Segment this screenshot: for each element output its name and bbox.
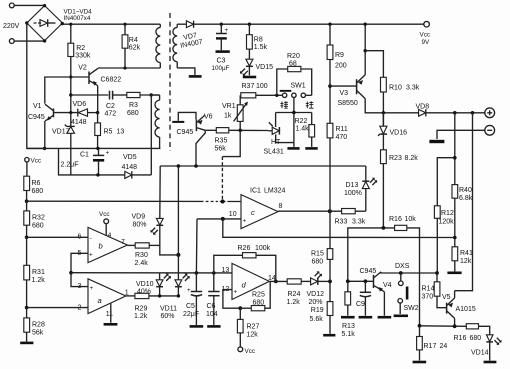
node R41 top <box>453 236 457 240</box>
node VD11 column top <box>177 164 181 168</box>
label nickel <box>280 101 288 108</box>
svg-text:VD12: VD12 <box>307 291 325 298</box>
svg-text:1.5k: 1.5k <box>254 44 268 51</box>
svg-text:200: 200 <box>335 63 347 70</box>
ground C3 <box>216 50 230 53</box>
wire top rail right <box>221 23 423 25</box>
svg-text:IC1: IC1 <box>250 188 261 195</box>
svg-text:13: 13 <box>222 267 230 274</box>
resistor R4 <box>124 24 126 35</box>
ground SW1 middle <box>287 147 299 150</box>
svg-text:680: 680 <box>127 110 139 117</box>
svg-text:3: 3 <box>78 283 82 290</box>
terminal plus <box>485 108 495 118</box>
transistor V4 C945 <box>374 272 385 316</box>
wire opamp b pin6 <box>27 236 88 238</box>
resistor R25 680 <box>240 281 270 310</box>
resistor R40 6.8k <box>452 185 458 199</box>
resistor R14 370 <box>434 273 446 308</box>
svg-text:C945: C945 <box>360 268 377 275</box>
svg-text:12k: 12k <box>247 332 259 339</box>
LED VD9 <box>151 218 164 245</box>
resistor R2 <box>70 24 72 43</box>
transistor V3 S8550 <box>357 75 366 99</box>
wire V4 collector DXS row <box>381 272 437 273</box>
svg-text:+: + <box>89 252 93 259</box>
svg-text:R26: R26 <box>238 245 251 252</box>
svg-text:D13: D13 <box>346 182 359 189</box>
Vcc opamp b <box>104 219 109 224</box>
Vcc 9V terminal <box>424 21 430 27</box>
svg-text:A1015: A1015 <box>456 306 476 313</box>
node VD6 left / VD17 top <box>69 111 72 114</box>
node R32 bottom <box>25 236 29 240</box>
svg-text:680: 680 <box>253 299 265 306</box>
svg-text:2: 2 <box>78 304 82 311</box>
node R14 top <box>435 271 439 275</box>
svg-text:V3: V3 <box>340 90 349 97</box>
node R25/R27 <box>238 306 242 310</box>
svg-text:R10: R10 <box>389 85 402 92</box>
ground C9 <box>359 316 373 319</box>
node pin9 drop <box>221 217 225 221</box>
switch DXS SW2 <box>395 263 410 314</box>
node V1 emitter <box>43 147 46 150</box>
svg-text:7: 7 <box>121 239 125 246</box>
svg-text:V6: V6 <box>204 114 213 121</box>
svg-text:8: 8 <box>279 203 283 210</box>
svg-text:R8: R8 <box>254 37 263 44</box>
svg-text:4148: 4148 <box>71 119 87 126</box>
svg-text:6.8k: 6.8k <box>459 195 473 202</box>
svg-text:R4: R4 <box>129 37 138 44</box>
svg-text:+: + <box>243 218 247 225</box>
svg-text:+: + <box>187 287 191 294</box>
node opamp d output <box>274 280 278 284</box>
svg-text:R41: R41 <box>460 250 473 257</box>
svg-text:R16: R16 <box>454 335 467 342</box>
resistor R22 1.4k <box>309 113 315 147</box>
diode VD8 <box>419 109 485 116</box>
ground R28 <box>20 342 33 345</box>
svg-text:24: 24 <box>440 343 448 350</box>
capacitor C2 472 <box>110 91 127 100</box>
ground R41 <box>447 271 461 274</box>
wire horizontal y148 <box>27 147 161 149</box>
capacitor C6 104 <box>208 273 219 325</box>
wire top rail left <box>63 23 161 25</box>
wire V2 base <box>45 77 89 104</box>
svg-text:100μF: 100μF <box>212 65 230 72</box>
ground C6 <box>207 325 220 328</box>
label lithium <box>306 101 314 108</box>
wire plus column down <box>454 113 456 185</box>
node VD10 bottom <box>158 294 161 297</box>
node R13 top <box>346 279 350 283</box>
resistor R13 5.1k <box>345 281 351 315</box>
svg-text:472: 472 <box>105 111 117 118</box>
resistor R31 1.2k <box>26 237 28 265</box>
svg-text:2.2μF: 2.2μF <box>61 161 79 168</box>
svg-text:R16: R16 <box>389 216 402 223</box>
svg-text:R22: R22 <box>295 118 308 125</box>
svg-text:11: 11 <box>106 311 113 318</box>
svg-text:V4: V4 <box>383 282 392 289</box>
svg-text:V2: V2 <box>78 64 87 71</box>
resistor R8 1.5k <box>248 24 250 35</box>
svg-text:VD17: VD17 <box>52 129 70 136</box>
transistor V6 C945 base tap <box>172 112 196 123</box>
svg-text:-: - <box>90 235 92 242</box>
resistor R32 680 <box>24 211 30 225</box>
svg-text:R27: R27 <box>247 324 260 331</box>
svg-text:R29: R29 <box>135 306 148 313</box>
node VD12 right <box>328 280 332 284</box>
svg-text:+: + <box>106 150 110 157</box>
resistor R33 3.3k <box>342 209 356 214</box>
node R2 top <box>69 23 72 26</box>
wire V2 emitter column <box>97 86 99 113</box>
resistor R23 8.2k <box>381 150 387 164</box>
svg-text:4148: 4148 <box>122 164 138 171</box>
wire VD9 column <box>159 166 161 218</box>
node output c <box>328 209 332 213</box>
svg-text:S8550: S8550 <box>338 100 358 107</box>
svg-text:13: 13 <box>117 129 125 136</box>
node C9 top <box>364 279 368 283</box>
opamp d <box>232 263 269 299</box>
svg-text:C5: C5 <box>186 303 195 310</box>
svg-text:R37: R37 <box>242 83 255 90</box>
node R4 bottom <box>123 66 126 69</box>
svg-text:4: 4 <box>108 232 112 239</box>
resistor R12 120k <box>434 206 440 219</box>
wire R10 branch <box>365 51 383 78</box>
svg-text:SW1: SW1 <box>291 82 306 89</box>
resistor R41 12k <box>452 247 458 261</box>
resistor R35 56k <box>205 128 268 133</box>
node R17 top <box>418 324 422 328</box>
svg-text:R20: R20 <box>287 53 300 60</box>
transformer core dashed <box>169 13 171 151</box>
svg-text:60%: 60% <box>161 313 175 320</box>
resistor R17 24 <box>417 326 423 361</box>
resistor R15 680 <box>327 249 333 260</box>
wire minus to ground <box>437 130 485 139</box>
svg-text:R25: R25 <box>252 292 265 299</box>
wire V4 base row <box>348 280 373 282</box>
left column Vcc terminal <box>25 158 29 162</box>
node C1 top <box>96 147 99 150</box>
ground V4 <box>378 316 392 319</box>
node C2 wire left <box>69 93 72 96</box>
node DXS top <box>399 271 403 275</box>
svg-text:Vcc: Vcc <box>245 348 256 355</box>
variable resistor VR1 1k <box>234 95 248 130</box>
wire R17 row <box>420 325 467 328</box>
svg-text:LM324: LM324 <box>264 188 286 195</box>
svg-text:R30: R30 <box>135 252 148 259</box>
svg-text:5.6k: 5.6k <box>310 316 324 323</box>
svg-text:SW2: SW2 <box>404 305 419 312</box>
svg-text:R40: R40 <box>459 187 472 194</box>
svg-text:R9: R9 <box>335 52 344 59</box>
zener VD17 <box>65 113 75 175</box>
AC input terminal lower <box>9 39 14 44</box>
wire R12 branch <box>437 158 455 206</box>
svg-text:+: + <box>90 285 94 292</box>
wire V3 emitter column <box>364 24 366 75</box>
regulator HT SL431 <box>268 113 294 143</box>
resistor R9 200 <box>329 24 331 45</box>
capacitor C1 2.2uF <box>93 148 110 175</box>
wire pin9 to battery divider <box>223 219 455 238</box>
svg-text:R12: R12 <box>441 210 454 217</box>
svg-text:C1: C1 <box>80 152 89 159</box>
capacitor C3 100uF <box>216 24 229 50</box>
wire VD5 row <box>59 148 152 175</box>
diode VD7 IN4007 <box>186 21 221 28</box>
transistor V6 C945 <box>196 115 205 166</box>
ground VD14 <box>484 361 497 364</box>
wire pin11 ground <box>110 304 112 323</box>
svg-text:R24: R24 <box>288 291 301 298</box>
ground C5 <box>190 325 204 328</box>
opamp b <box>88 227 127 262</box>
wire V3 collector to VD8 row <box>365 99 418 113</box>
svg-text:56k: 56k <box>215 146 227 153</box>
svg-text:1.2k: 1.2k <box>287 299 301 306</box>
wire R2 column down <box>70 57 72 113</box>
svg-text:680: 680 <box>32 222 44 229</box>
svg-text:VD15: VD15 <box>256 64 274 71</box>
svg-text:C945: C945 <box>177 129 194 136</box>
AC input terminal upper <box>9 3 14 8</box>
svg-text:R31: R31 <box>32 269 45 276</box>
svg-text:R5: R5 <box>104 129 113 136</box>
svg-text:+: + <box>225 27 229 34</box>
wire secondary top to VD7 <box>177 23 186 25</box>
ground minus <box>429 140 444 143</box>
svg-text:68: 68 <box>289 60 297 67</box>
svg-text:R19: R19 <box>311 307 324 314</box>
opamp c <box>241 195 278 229</box>
node R23 bottom <box>382 226 386 230</box>
wire R11 column <box>329 138 331 249</box>
transistor V5 A1015 <box>447 291 455 327</box>
svg-text:330k: 330k <box>75 53 91 60</box>
svg-text:VD14: VD14 <box>471 350 489 357</box>
svg-text:DXS: DXS <box>395 263 410 270</box>
resistor R20 68 loop <box>277 66 312 95</box>
svg-text:470: 470 <box>336 134 348 141</box>
svg-text:22μF: 22μF <box>183 311 199 318</box>
wire R30 to VD11 column <box>160 245 179 255</box>
transformer secondary winding <box>173 24 177 68</box>
svg-text:R28: R28 <box>32 321 45 328</box>
wire secondary bottom to ground <box>177 68 195 75</box>
wire VD5 right up column <box>150 95 152 175</box>
resistor R27 12k <box>237 308 243 347</box>
wire opamp a pin2 <box>27 307 88 309</box>
wire AC left column down <box>27 23 45 148</box>
svg-text:370: 370 <box>422 294 434 301</box>
svg-text:1.4k: 1.4k <box>295 126 309 133</box>
node discharge column <box>471 111 475 115</box>
svg-text:b: b <box>99 242 103 251</box>
svg-text:120k: 120k <box>439 219 455 226</box>
svg-text:56k: 56k <box>32 329 44 336</box>
wire V1 emitter down <box>44 121 46 148</box>
wire pin5 loop <box>71 253 88 286</box>
svg-text:100%: 100% <box>344 190 362 197</box>
svg-text:5.1k: 5.1k <box>342 331 356 338</box>
node R31 bottom <box>25 306 29 310</box>
wire VD11 column <box>177 166 179 280</box>
svg-text:c: c <box>251 208 255 217</box>
ground R13 <box>341 316 355 319</box>
LED VD11 <box>175 274 190 296</box>
svg-text:R17: R17 <box>424 343 437 350</box>
ground R17 <box>413 361 427 364</box>
node C6 top <box>212 271 216 275</box>
LED D13 100% <box>362 166 377 211</box>
svg-text:100: 100 <box>256 83 268 90</box>
transistor V2 C6822 <box>89 68 98 85</box>
svg-text:a: a <box>98 296 102 305</box>
svg-text:C9: C9 <box>356 301 365 308</box>
wire V3 base <box>330 85 356 87</box>
node C5 top <box>195 271 199 275</box>
node C1 bottom <box>96 173 99 176</box>
node SW1 left <box>275 94 278 97</box>
svg-text:9V: 9V <box>422 39 431 46</box>
ground secondary <box>189 75 202 78</box>
wire VR1 to opamp c input <box>222 130 240 156</box>
svg-text:10: 10 <box>229 211 237 218</box>
node VD16 top <box>382 111 385 114</box>
capacitor C5 22uF <box>187 273 202 325</box>
svg-text:SL431: SL431 <box>264 149 284 156</box>
LED VD10 <box>156 273 171 296</box>
svg-text:3.3k: 3.3k <box>406 85 420 92</box>
svg-text:C6822: C6822 <box>101 76 122 83</box>
svg-text:R11: R11 <box>336 126 348 133</box>
svg-text:V5: V5 <box>442 294 451 301</box>
svg-text:Vcc: Vcc <box>420 32 431 39</box>
node C3 top <box>220 23 223 26</box>
wire pin12 <box>223 290 240 309</box>
ground pin11 <box>104 323 118 326</box>
LED VD14 <box>486 335 501 361</box>
wire long bus y201 <box>27 200 241 202</box>
svg-text:1k: 1k <box>224 113 232 120</box>
wire <box>14 4 44 6</box>
zener VD16 <box>378 113 387 150</box>
node feedback winding top <box>150 93 153 96</box>
svg-text:VD10: VD10 <box>136 281 154 288</box>
svg-text:80%: 80% <box>133 221 147 228</box>
node bus y201 <box>221 200 225 204</box>
svg-text:6: 6 <box>78 234 82 241</box>
wire opamp c output <box>278 210 342 212</box>
node pin5/pin3 column <box>69 271 73 275</box>
svg-text:R6: R6 <box>32 180 41 187</box>
svg-text:C945: C945 <box>28 114 45 121</box>
resistor R5 13 <box>97 113 99 123</box>
resistor R10 3.3k <box>381 77 387 92</box>
svg-text:20%: 20% <box>309 299 323 306</box>
svg-text:R15: R15 <box>311 251 324 258</box>
ground VD15 <box>243 76 256 79</box>
svg-text:R23: R23 <box>389 155 402 162</box>
svg-text:10k: 10k <box>405 216 417 223</box>
svg-text:VD9: VD9 <box>132 213 146 220</box>
node V2 base <box>69 75 72 78</box>
node battery plus column <box>453 111 457 115</box>
svg-text:3.3k: 3.3k <box>352 219 366 226</box>
ground R22 <box>305 147 317 150</box>
svg-text:Vcc: Vcc <box>31 158 42 165</box>
node VD11 bottom <box>177 294 180 297</box>
svg-text:C3: C3 <box>217 58 226 65</box>
node R8 top <box>248 23 251 26</box>
bridge rectifier VD1~VD4 <box>25 4 64 43</box>
wire R16 10k row <box>348 228 395 281</box>
svg-text:R2: R2 <box>76 45 85 52</box>
transistor V1 C945 <box>45 104 56 121</box>
wire bus y272 <box>71 272 232 274</box>
svg-text:220V: 220V <box>3 23 20 30</box>
resistor R11 470 <box>327 123 333 138</box>
wire SW1 middle down <box>293 98 295 147</box>
svg-text:R13: R13 <box>342 323 355 330</box>
capacitor C9 <box>360 281 371 315</box>
LED VD15 <box>240 59 253 76</box>
svg-text:VD6: VD6 <box>73 101 87 108</box>
transformer feedback winding <box>151 95 159 148</box>
svg-text:Vcc: Vcc <box>99 211 110 218</box>
svg-text:R35: R35 <box>215 138 228 145</box>
svg-text:8.2k: 8.2k <box>405 155 419 162</box>
svg-text:1.2k: 1.2k <box>32 277 46 284</box>
wire discharge column down <box>455 113 473 291</box>
resistor R37 <box>241 93 283 98</box>
wire C2-R3 <box>71 94 109 96</box>
wire opamp c pin10 column <box>197 218 241 220</box>
node R12 branch <box>453 156 457 160</box>
svg-text:1.2k: 1.2k <box>134 313 148 320</box>
resistor R16 680 <box>466 324 489 335</box>
wire output d <box>269 280 287 282</box>
svg-text:100k: 100k <box>255 245 271 252</box>
node R4 top <box>123 23 126 26</box>
wire R22 row <box>276 112 312 114</box>
wire V2 collector to R4 node <box>98 67 160 69</box>
wire bus y166 <box>160 165 366 167</box>
svg-text:R32: R32 <box>32 214 45 221</box>
svg-text:C6: C6 <box>207 303 216 310</box>
svg-text:VD8: VD8 <box>416 103 430 110</box>
node R22 row <box>292 111 296 115</box>
node V6 emitter <box>194 164 198 168</box>
svg-text:2.4k: 2.4k <box>135 260 149 267</box>
node VD6 right R5 <box>96 111 99 114</box>
ground SW2 <box>394 314 408 317</box>
node R6 bottom <box>25 199 29 203</box>
Vcc opamp d <box>238 347 243 352</box>
svg-text:680: 680 <box>32 188 44 195</box>
